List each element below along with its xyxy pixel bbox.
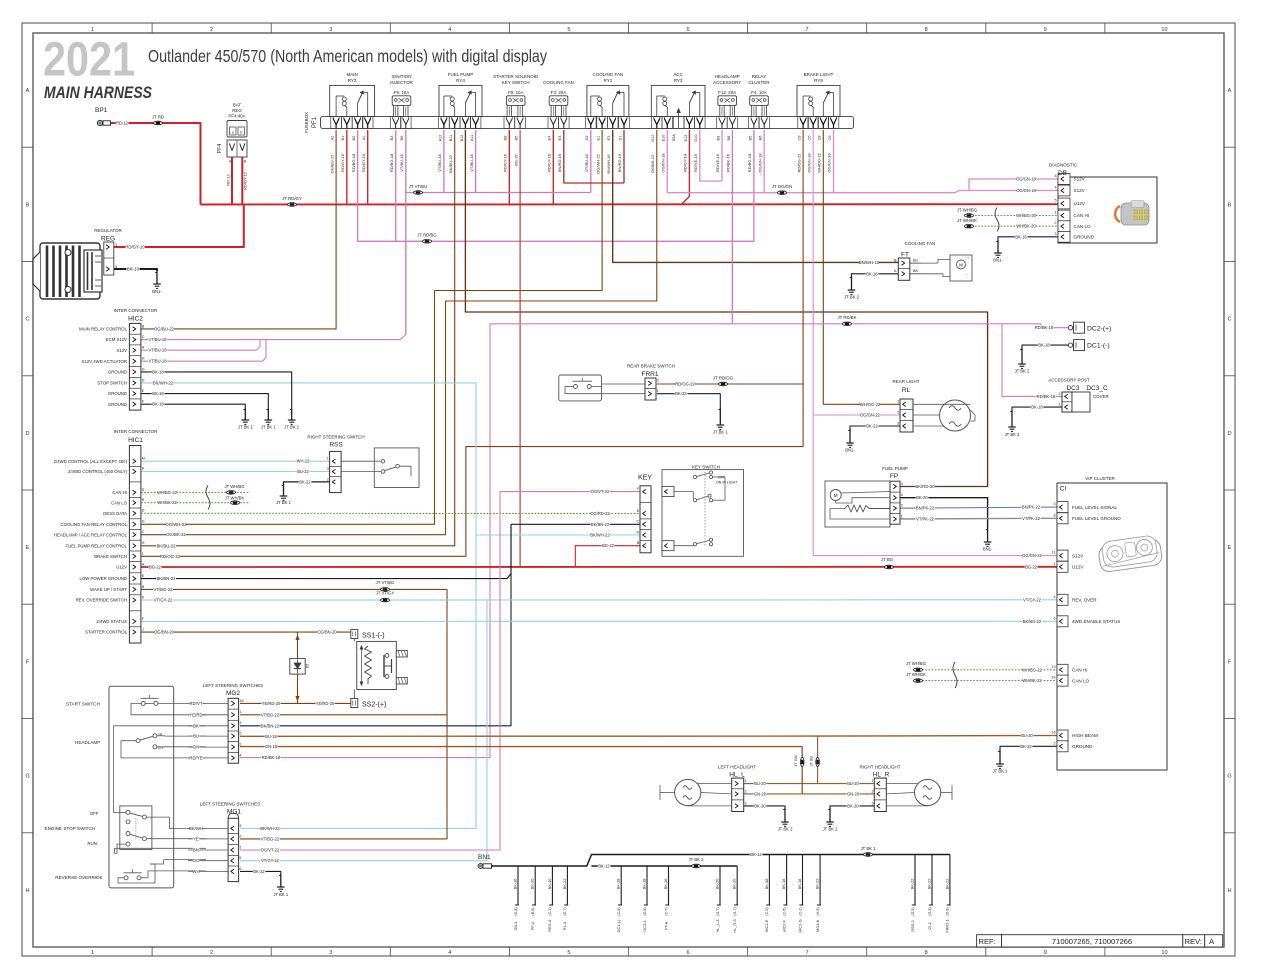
svg-text:OG/BU-22: OG/BU-22: [329, 154, 334, 173]
svg-text:BK-18: BK-18: [797, 879, 802, 890]
svg-text:GN: GN: [193, 745, 199, 750]
svg-text:ECM S12V: ECM S12V: [106, 337, 127, 342]
svg-text:B2: B2: [352, 136, 356, 141]
svg-text:BU: BU: [193, 734, 199, 739]
splice JT RD/BG: [417, 233, 437, 244]
svg-text:SS2-(+): SS2-(+): [362, 702, 386, 709]
svg-text:1: 1: [745, 779, 747, 783]
svg-text:C: C: [142, 335, 145, 339]
svg-text:JT BK 1: JT BK 1: [713, 430, 728, 435]
svg-text:RD-12: RD-12: [225, 173, 230, 185]
wire HIC2 BK-18 grounds: [141, 369, 292, 408]
CI cluster photo icon: [1097, 534, 1163, 572]
relay RY2 MAIN: [330, 72, 375, 128]
svg-text:L: L: [142, 552, 144, 556]
splice JT RD/GY: [282, 196, 302, 207]
svg-text:F4: 10A: F4: 10A: [751, 90, 766, 95]
wire RD/GY-16 cooling fuse E4 drop: [547, 130, 554, 205]
svg-text:OG/GN-18: OG/GN-18: [1016, 188, 1036, 193]
svg-text:BK-18: BK-18: [152, 402, 164, 407]
wire BG-22 starter key switch B5: [513, 130, 520, 567]
svg-text:WH/BK-22: WH/BK-22: [1022, 678, 1042, 683]
svg-text:A1: A1: [362, 136, 366, 141]
svg-text:3: 3: [239, 824, 241, 828]
svg-text:B5: B5: [515, 136, 519, 141]
svg-text:YE/RD-20: YE/RD-20: [262, 701, 281, 706]
svg-text:6: 6: [686, 950, 689, 956]
svg-text:BU-20: BU-20: [1021, 733, 1033, 738]
fusebox bar PF1: [304, 112, 854, 133]
svg-text:1: 1: [1054, 211, 1056, 215]
svg-text:MG2: MG2: [226, 690, 240, 697]
svg-text:BK-18: BK-18: [1038, 343, 1050, 348]
svg-text:JT BG: JT BG: [881, 557, 894, 562]
svg-text:BN/RD-16: BN/RD-16: [617, 153, 622, 172]
svg-text:1: 1: [901, 514, 903, 518]
svg-text:3: 3: [1053, 502, 1055, 506]
svg-text:F: F: [26, 659, 30, 665]
svg-text:RD/OG-22: RD/OG-22: [796, 153, 801, 173]
wire CAN HI stub at HIC1: [141, 490, 250, 495]
svg-text:BN/RD-16: BN/RD-16: [557, 153, 562, 172]
svg-text:2: 2: [239, 834, 241, 838]
splice JT GN: [793, 755, 804, 766]
inter connector HIC2: [79, 308, 158, 410]
wire BN/RD-16 cooling fan fuse E3 to relay D1: [557, 130, 624, 183]
svg-text:PF1: PF1: [312, 116, 318, 128]
svg-text:RD/OG-22: RD/OG-22: [675, 382, 695, 387]
svg-text:A12: A12: [438, 135, 442, 142]
svg-text:BN/WH-16: BN/WH-16: [606, 154, 611, 174]
svg-text:2/4WD CONTROL (450 ONLY): 2/4WD CONTROL (450 ONLY): [68, 469, 128, 474]
svg-text:VT/BU-18: VT/BU-18: [584, 153, 589, 171]
diagnostic connector DB: [1049, 163, 1157, 244]
svg-text:WH/BK-20: WH/BK-20: [1016, 224, 1036, 229]
svg-text:6: 6: [1054, 174, 1056, 178]
wire RSS BK-22 ground: [284, 479, 330, 484]
svg-text:1: 1: [871, 779, 873, 783]
svg-text:CLUSTER: CLUSTER: [748, 80, 770, 85]
svg-text:RD/GY-16: RD/GY-16: [361, 153, 366, 172]
svg-text:FUEL PUMP RELAY CONTROL: FUEL PUMP RELAY CONTROL: [66, 543, 128, 548]
svg-text:HL_R-3: HL_R-3: [732, 919, 737, 932]
svg-text:DC3: DC3: [1066, 385, 1079, 392]
wire RD/BK bus JT RD/BK y=323.8: [240, 130, 1069, 760]
fuse F3 COOLING FAN: [543, 80, 574, 129]
svg-text:14: 14: [1051, 676, 1055, 680]
wire HL_L BK-20 ground: [744, 803, 785, 808]
svg-text:REF:: REF:: [979, 937, 996, 946]
fuel pump FP: [825, 466, 908, 527]
svg-text:2021: 2021: [43, 34, 135, 87]
key switch contacts box: [662, 465, 744, 557]
svg-text:BK-18: BK-18: [152, 391, 164, 396]
svg-text:OG/GN-18: OG/GN-18: [757, 153, 762, 173]
svg-text:VT/GY-22: VT/GY-22: [261, 858, 280, 863]
svg-text:3: 3: [329, 950, 332, 956]
svg-text:BK-22: BK-22: [926, 879, 931, 890]
svg-text:VT/BU-18: VT/BU-18: [149, 348, 168, 353]
svg-text:E10: E10: [662, 135, 666, 142]
svg-text:WH/BG-20: WH/BG-20: [1016, 213, 1037, 218]
ground JT BK 2 right headlight: [823, 808, 838, 832]
svg-text:JT WH/BG: JT WH/BG: [957, 207, 977, 212]
ground bus drop RL-3: [562, 866, 568, 930]
svg-text:E12: E12: [684, 135, 688, 142]
svg-text:BK-22: BK-22: [815, 879, 820, 890]
svg-text:D1: D1: [618, 136, 622, 141]
svg-text:BP1: BP1: [95, 107, 108, 114]
wire PF4 RD-12 drop: [225, 157, 232, 205]
svg-text:JT WH/BK: JT WH/BK: [957, 218, 977, 223]
wire DB BK-16 ground: [998, 234, 1058, 240]
svg-text:C: C: [1227, 317, 1231, 323]
svg-text:BK-22: BK-22: [562, 879, 567, 890]
svg-text:F: F: [1228, 659, 1232, 665]
svg-text:BK-18: BK-18: [641, 879, 646, 890]
svg-text:2: 2: [871, 789, 873, 793]
wire WH/OG-22 brake light to rear light C8: [817, 130, 901, 407]
svg-text:JT WH/BK: JT WH/BK: [906, 672, 926, 677]
svg-text:(D-6): (D-6): [946, 907, 950, 915]
svg-text:YE/RD: YE/RD: [189, 712, 202, 717]
svg-text:STOP SWITCH: STOP SWITCH: [97, 381, 127, 386]
wire CAN LO stub at DB: [975, 224, 1058, 229]
splice JT RD/BK: [837, 315, 856, 326]
svg-text:FUEL LEVEL GROUND: FUEL LEVEL GROUND: [1072, 516, 1121, 521]
wire 2/4WD control WH-22: [141, 459, 330, 464]
svg-text:U12V: U12V: [116, 565, 127, 570]
svg-text:8: 8: [1053, 513, 1055, 517]
svg-text:S12V: S12V: [1074, 177, 1086, 182]
svg-text:BK-22: BK-22: [866, 424, 878, 429]
svg-text:VT/BU-18: VT/BU-18: [149, 359, 168, 364]
svg-text:6: 6: [686, 27, 689, 33]
svg-text:FUEL PUMP: FUEL PUMP: [448, 72, 474, 77]
ground JT BK 2 at DC1: [1015, 348, 1030, 374]
headlamp switch: [75, 726, 206, 813]
svg-text:B12: B12: [460, 135, 464, 142]
svg-text:S12V: S12V: [1072, 553, 1084, 558]
svg-text:8: 8: [925, 27, 928, 33]
svg-text:REAR LIGHT: REAR LIGHT: [892, 379, 919, 384]
svg-text:RD/BK-18: RD/BK-18: [1035, 325, 1054, 330]
svg-text:OG: OG: [193, 858, 200, 863]
wire HL_R BK-20 ground: [830, 803, 874, 808]
svg-text:VT/PK-22: VT/PK-22: [916, 517, 934, 522]
svg-text:BK/BU-22: BK/BU-22: [448, 154, 453, 173]
svg-text:9: 9: [1044, 27, 1047, 33]
svg-text:VT/GY-22: VT/GY-22: [1023, 597, 1042, 602]
svg-text:BK-22: BK-22: [909, 879, 914, 890]
svg-text:MAIN HARNESS: MAIN HARNESS: [44, 84, 152, 102]
svg-text:E3: E3: [558, 136, 562, 141]
svg-text:1: 1: [1053, 562, 1055, 566]
svg-text:DB-3: DB-3: [513, 922, 518, 931]
svg-text:INJECTOR: INJECTOR: [390, 80, 413, 85]
svg-text:JT OG/GN: JT OG/GN: [772, 184, 792, 189]
svg-text:OG/BK-22: OG/BK-22: [166, 532, 186, 537]
svg-text:D: D: [142, 509, 145, 513]
ref box: [977, 935, 1223, 947]
svg-text:BK/RD-20: BK/RD-20: [915, 484, 935, 489]
wire OG/BK-22 headlamp acc relay control D12: [141, 130, 657, 537]
svg-text:HEADLAMP: HEADLAMP: [75, 740, 100, 745]
svg-text:DC2-(+): DC2-(+): [1087, 325, 1111, 332]
svg-text:REV. OVERRIDE SWITCH: REV. OVERRIDE SWITCH: [76, 598, 127, 603]
ground bus drop DB-3: [512, 866, 518, 930]
svg-text:BK-16: BK-16: [866, 271, 878, 276]
wire BN1 ground bus: [492, 852, 950, 869]
svg-text:4WD ENABLE STATUS: 4WD ENABLE STATUS: [1072, 619, 1120, 624]
ground bus drop MG1-6: [815, 855, 821, 932]
svg-text:F5: 10A: F5: 10A: [394, 90, 409, 95]
svg-text:(H-5): (H-5): [816, 907, 820, 915]
svg-text:RY3: RY3: [674, 78, 683, 83]
svg-text:A11: A11: [470, 135, 474, 141]
svg-text:BN1-: BN1-: [152, 289, 162, 294]
svg-text:J: J: [142, 628, 144, 632]
svg-text:VT/PK-22: VT/PK-22: [1022, 516, 1040, 521]
svg-text:BK-20: BK-20: [754, 803, 766, 808]
wire OG/GN-22 rear light and cluster branch C6: [806, 130, 1057, 558]
svg-text:BK-18: BK-18: [152, 369, 164, 374]
svg-text:BN: BN: [193, 848, 199, 853]
svg-text:FT-A: FT-A: [663, 921, 668, 930]
svg-text:RD/YE-16: RD/YE-16: [693, 153, 698, 172]
svg-text:HEADLAMP / ACC RELAY CONTROL: HEADLAMP / ACC RELAY CONTROL: [54, 532, 128, 537]
svg-text:U12V: U12V: [1074, 201, 1086, 206]
svg-text:BN1-: BN1-: [993, 258, 1003, 263]
starter solenoid SS1 SS2: [351, 630, 408, 709]
svg-text:BK-20: BK-20: [714, 878, 719, 890]
svg-text:JT BK 1: JT BK 1: [238, 425, 253, 430]
svg-text:GROUND: GROUND: [108, 391, 127, 396]
svg-text:(C-5): (C-5): [782, 907, 786, 915]
svg-text:(B-8): (B-8): [531, 908, 535, 916]
right steering switch RSS contacts: [341, 448, 419, 488]
splice JT OG/GN: [772, 184, 792, 195]
regulator REG drawing: [33, 243, 102, 299]
svg-text:HIC2: HIC2: [128, 316, 143, 323]
svg-text:PF-4: PF-4: [530, 921, 535, 930]
svg-text:OG/WH-22: OG/WH-22: [595, 153, 600, 174]
svg-text:JT BK 1: JT BK 1: [993, 769, 1008, 774]
svg-text:JT VT/BU: JT VT/BU: [409, 184, 428, 189]
svg-text:BAT: BAT: [233, 103, 242, 108]
ground JT BK 1 HIC2-E: [261, 408, 276, 430]
svg-text:B9: B9: [716, 136, 720, 141]
svg-text:RD/GY-16: RD/GY-16: [547, 153, 552, 172]
svg-text:R: R: [142, 498, 145, 502]
svg-text:KEY: KEY: [638, 475, 652, 482]
svg-text:JT BK 2: JT BK 2: [1015, 369, 1030, 374]
svg-text:E2: E2: [607, 136, 611, 141]
wire FP VT/PK-22 fuel level ground: [900, 516, 1057, 522]
svg-text:DC1-(-): DC1-(-): [616, 919, 621, 933]
svg-text:C6: C6: [828, 136, 832, 141]
svg-text:INTER CONNECTOR: INTER CONNECTOR: [114, 429, 158, 434]
svg-text:RD/GY-16: RD/GY-16: [503, 153, 508, 172]
svg-text:HIC1: HIC1: [128, 437, 143, 444]
ground BN1- regulator: [152, 271, 162, 294]
svg-text:REG: REG: [232, 108, 242, 113]
svg-text:D12: D12: [651, 135, 655, 142]
svg-text:JT BK 2: JT BK 2: [823, 827, 838, 832]
svg-text:1: 1: [657, 389, 659, 393]
svg-text:B: B: [26, 202, 30, 208]
wire BP1 RD-12 to main red bus: [110, 123, 201, 205]
svg-text:S12V: S12V: [1074, 188, 1086, 193]
svg-text:4: 4: [1053, 595, 1055, 599]
vip cluster connector CI: [1051, 476, 1167, 770]
svg-text:RSS: RSS: [329, 442, 343, 449]
svg-text:16: 16: [239, 699, 243, 703]
svg-text:OG/GN-22: OG/GN-22: [1022, 553, 1042, 558]
splice JT WH/BG at DB: [957, 207, 977, 217]
svg-text:COVER: COVER: [1093, 394, 1109, 399]
svg-text:RSS-2: RSS-2: [910, 920, 915, 931]
svg-text:OG/BN-20: OG/BN-20: [317, 630, 337, 635]
svg-text:3: 3: [745, 801, 747, 805]
svg-text:9: 9: [1044, 950, 1047, 956]
svg-text:BK/WH-22: BK/WH-22: [260, 826, 280, 831]
wire CI BK-22 ground: [1000, 744, 1057, 750]
svg-text:BK-12: BK-12: [750, 852, 762, 857]
svg-text:BN1: BN1: [478, 854, 491, 861]
svg-text:RD/BG-18: RD/BG-18: [747, 153, 752, 172]
ground bus drop HIC2-F: [781, 855, 787, 933]
svg-text:ACCESSORY POST: ACCESSORY POST: [1048, 378, 1090, 383]
svg-text:D: D: [25, 431, 29, 437]
left switch enclosure: [109, 686, 174, 888]
svg-text:CAN LO: CAN LO: [111, 500, 128, 505]
svg-text:B6: B6: [400, 136, 404, 141]
wire OG/BU-22 main relay control A2: [141, 130, 336, 332]
svg-text:BK-18: BK-18: [1031, 405, 1043, 410]
svg-text:VT/BU-18: VT/BU-18: [399, 153, 404, 171]
svg-text:JT BK 2: JT BK 2: [1005, 432, 1020, 437]
svg-text:WH/BG-22: WH/BG-22: [157, 490, 178, 495]
svg-text:2: 2: [1053, 741, 1055, 745]
svg-text:RD/OG-22: RD/OG-22: [160, 554, 181, 559]
svg-text:10: 10: [1161, 950, 1167, 956]
svg-text:CAN HI: CAN HI: [112, 490, 127, 495]
svg-text:(C-2): (C-2): [798, 907, 802, 915]
svg-text:2: 2: [1058, 392, 1060, 396]
svg-text:D: D: [1227, 431, 1231, 437]
splice JT WH/BK at DB: [957, 218, 977, 228]
ground JT BK 1 HIC2-F: [238, 408, 253, 430]
wire OG/VT-22 key net: [240, 489, 640, 852]
svg-text:5: 5: [567, 27, 570, 33]
svg-text:REV:: REV:: [1185, 937, 1202, 946]
left headlight HL_L: [660, 764, 756, 811]
svg-text:3: 3: [871, 801, 873, 805]
ground JT BK 2 left headlight: [778, 808, 793, 832]
svg-text:LEFT STEERING SWITCHES: LEFT STEERING SWITCHES: [200, 802, 260, 807]
svg-text:3: 3: [897, 421, 899, 425]
svg-text:BK-22: BK-22: [944, 879, 949, 890]
svg-text:RD/VT: RD/VT: [190, 701, 203, 706]
svg-text:KEY SWITCH: KEY SWITCH: [692, 465, 720, 470]
rear light connector RL: [892, 379, 975, 432]
splice JT BK 1 on ground bus: [861, 846, 876, 857]
svg-text:5: 5: [239, 856, 241, 860]
svg-text:HL_L: HL_L: [729, 772, 745, 779]
fuse F12 HEADLAMP ACCESSORY: [713, 74, 741, 128]
svg-text:BG-22: BG-22: [602, 543, 615, 548]
wire REG RD/GY-10: [114, 205, 244, 250]
svg-text:1: 1: [91, 27, 94, 33]
svg-text:DIAGNOSTIC: DIAGNOSTIC: [1049, 163, 1078, 168]
svg-text:E: E: [1228, 545, 1232, 551]
svg-text:REV. OVER: REV. OVER: [1072, 598, 1097, 603]
ground bus drop HL_L-3: [714, 866, 720, 932]
svg-text:HL_R: HL_R: [873, 772, 890, 779]
svg-text:HEADLAMP: HEADLAMP: [715, 74, 740, 79]
svg-text:GROUND: GROUND: [108, 402, 127, 407]
splice JT BG: [881, 557, 894, 569]
svg-text:BK-18: BK-18: [781, 879, 786, 890]
svg-text:OG/BU-22: OG/BU-22: [154, 326, 175, 331]
ground JT BK 2 cooling fan: [844, 276, 859, 300]
svg-text:OG/GN-18: OG/GN-18: [827, 153, 832, 173]
svg-text:1: 1: [239, 845, 241, 849]
svg-text:a: a: [232, 131, 234, 135]
svg-text:F3: 20A: F3: 20A: [551, 90, 566, 95]
svg-text:5: 5: [1054, 199, 1056, 203]
rear brake switch FRR1: [559, 364, 675, 401]
svg-text:FRR1-1: FRR1-1: [945, 919, 950, 933]
ground JT BK 1 at MG1: [273, 874, 288, 897]
splice JT WH/BK at HIC1: [225, 495, 245, 504]
svg-text:WH/OG-22: WH/OG-22: [817, 152, 822, 173]
svg-text:RL-3: RL-3: [562, 922, 567, 930]
svg-text:HIC2-G: HIC2-G: [797, 919, 802, 932]
svg-text:BG-22: BG-22: [1025, 564, 1038, 569]
twisted pair mark at cluster: [953, 662, 957, 688]
svg-text:C8: C8: [818, 136, 822, 141]
svg-text:OG/BN-20: OG/BN-20: [154, 630, 175, 635]
svg-text:MAIN: MAIN: [346, 72, 357, 77]
svg-text:RD-12: RD-12: [116, 121, 129, 126]
svg-text:E4: E4: [548, 136, 552, 141]
wire DC1 BK-18 ground: [1022, 343, 1069, 348]
wire OG/BN-20 starter control net: [141, 629, 352, 703]
svg-text:2: 2: [901, 504, 903, 508]
svg-text:BG-22: BG-22: [513, 153, 518, 165]
svg-text:U12V: U12V: [1072, 565, 1084, 570]
svg-text:JT RD/BG: JT RD/BG: [417, 233, 437, 238]
ground bus drop HIC2-E: [764, 855, 770, 933]
splice JT WH/BK at cluster: [906, 672, 926, 683]
svg-text:2: 2: [210, 950, 213, 956]
svg-text:VT/BU-18: VT/BU-18: [437, 153, 442, 171]
svg-text:H: H: [142, 541, 145, 545]
wire DC3 BK-18 ground: [1012, 405, 1062, 410]
svg-text:CAN LO: CAN LO: [1072, 678, 1090, 683]
svg-text:H: H: [142, 357, 145, 361]
ground JT BK 1 at brake switch: [713, 408, 728, 435]
svg-text:WH-22: WH-22: [297, 459, 310, 464]
wire GN headlight low beam net: [240, 744, 874, 796]
svg-text:RD/GY-10: RD/GY-10: [125, 245, 145, 250]
svg-text:WH/BK-22: WH/BK-22: [157, 500, 177, 505]
svg-text:C6: C6: [808, 136, 812, 141]
wire BK/RD fuel pump feed B12: [460, 130, 988, 489]
svg-text:BN/PK-22: BN/PK-22: [1022, 505, 1041, 510]
